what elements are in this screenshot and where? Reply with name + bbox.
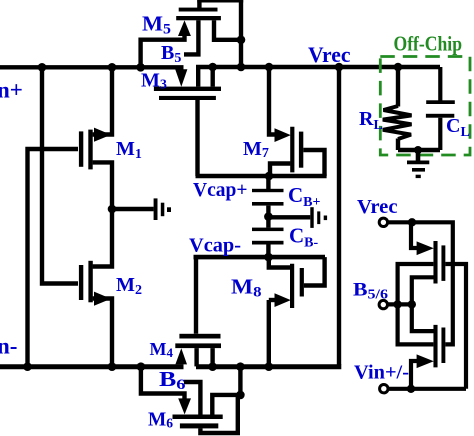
wire Vin+ rail [0,65,184,69]
transistor M4 [175,334,221,367]
junction M7 drain on Vrec rail [265,63,274,72]
svg-text:M4: M4 [150,339,174,360]
node Vcap+ junction [265,172,274,181]
transistor M5 [141,0,244,67]
svg-text:B6: B6 [159,367,186,393]
resistor RL [383,67,412,150]
svg-text:CB-: CB- [289,224,319,251]
wire Vrec rail [196,65,440,70]
junction M6 drain on bottom Vrec rail [236,362,245,371]
node off-chip bottom junction [414,146,422,154]
junction M2 gate on Vin+ rail [38,63,47,72]
wire off-chip bottom [398,148,440,152]
junction M5 gate-drain tie [237,36,246,45]
capacitor CB+ [252,176,284,216]
node mid-left port [112,198,171,220]
svg-text:M6: M6 [148,409,173,432]
svg-text:M8: M8 [231,275,262,301]
junction M8 drain on bottom Vrec rail [265,362,274,371]
svg-text:Vrec: Vrec [357,196,398,218]
junction M4 drain on bottom Vrec rail [208,362,217,371]
junction M1 gate on Vin- rail [23,362,32,371]
off-chip dashed box [380,57,470,156]
svg-text:M7: M7 [243,138,269,161]
junction M6 gate-drain tie [236,391,245,400]
junction M3 drain on Vrec rail [208,63,217,72]
transistor Q1 [398,223,466,389]
junction Q1 drain on Vrec wire [408,218,416,226]
junction Q1 source on B5/6 wire [393,300,401,308]
junction M1 drain on Vin+ rail [108,63,117,72]
terminal B5/6 [379,300,387,308]
node Vcap- junction [264,253,273,262]
transistor M7 [269,67,325,176]
svg-text:Vcap-: Vcap- [189,236,241,257]
svg-text:M1: M1 [116,138,142,162]
svg-text:M2: M2 [116,274,142,298]
junction Q2 drain on Vin wire [407,385,415,393]
transistor M3 [154,67,221,176]
wire Vin- rail [0,364,184,369]
node Vcap- wire [194,257,326,334]
terminal Vin+/- [380,385,388,393]
wire Vin+/- [389,387,466,391]
wire M1 gate to Vin- [28,149,79,366]
junction M5 drain on Vrec rail [237,63,246,72]
capacitor CL [426,67,455,150]
junction M6 source on Vin- rail [137,362,146,371]
svg-text:Vin+/-: Vin+/- [354,362,409,384]
svg-text:Vcap+: Vcap+ [193,180,247,201]
junction Vrec rail to right vertical [335,63,344,72]
svg-text:n+: n+ [0,78,23,103]
node cap mid port [268,207,327,228]
wire Vrec right vertical [337,67,341,365]
svg-text:CL: CL [446,115,470,140]
wire Vrec to Q2 gate [389,222,453,344]
ground [407,150,429,176]
svg-text:Vrec: Vrec [308,42,351,67]
wire Vrec bottom rail [196,364,341,369]
svg-text:M3: M3 [141,70,167,93]
node CB+/CB- midpoint [264,212,273,221]
svg-text:Off-Chip: Off-Chip [394,32,463,56]
svg-text:M5: M5 [142,12,171,38]
junction Vrec rail to RL [394,63,403,72]
junction Q1 bulk on B5/6 wire [408,300,416,308]
svg-text:B5: B5 [161,42,181,66]
terminal Vrec [379,218,387,226]
node Vcap+ wire [196,174,327,179]
transistor M6 [141,366,241,433]
node M1-M2 midpoint [108,205,117,214]
junction M2 source on Vin- rail [108,362,117,371]
transistor Q2 [398,304,444,389]
transistor M1 [81,67,112,209]
transistor M8 [269,257,325,366]
transistor M2 [81,209,112,367]
wire B5/6 [388,302,414,306]
svg-text:n-: n- [0,334,17,359]
wire M2 gate to Vin+ [42,67,78,284]
svg-text:CB+: CB+ [288,183,321,210]
junction M5 source on Vin+ rail [136,63,145,72]
capacitor CB- [252,216,284,257]
